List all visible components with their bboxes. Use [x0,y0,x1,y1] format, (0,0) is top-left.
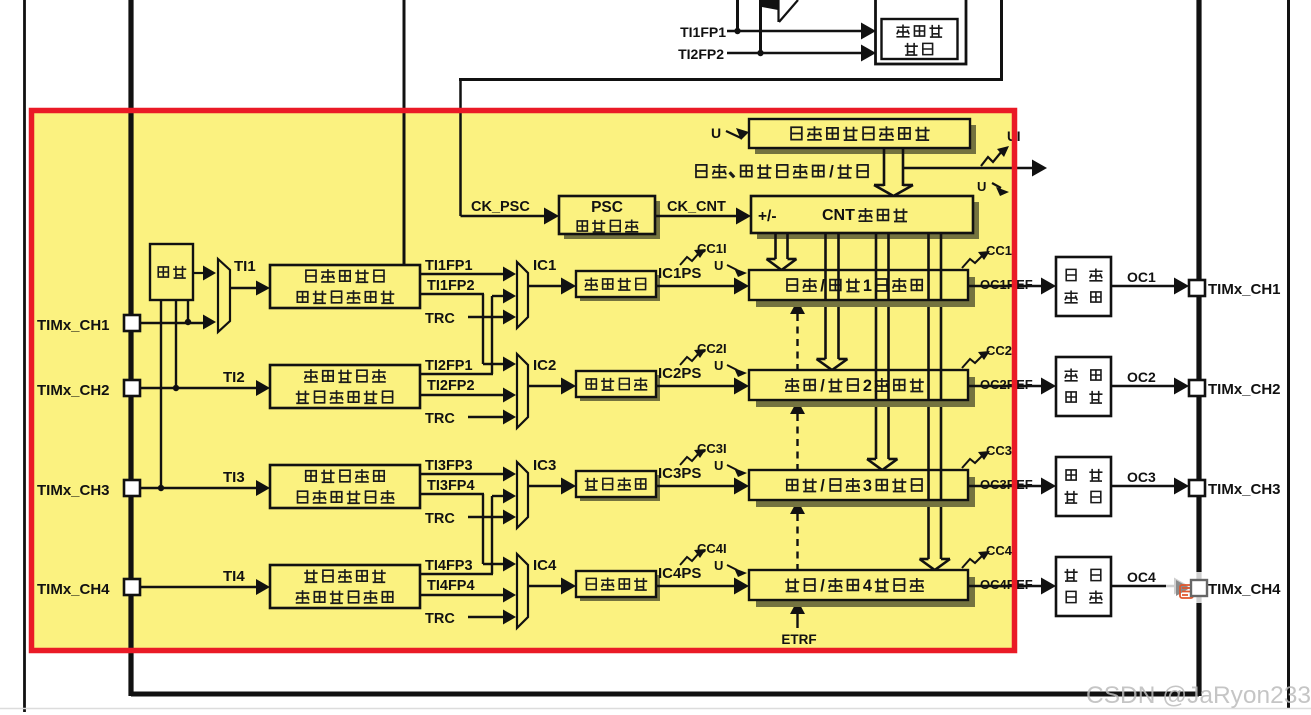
svg-text:U: U [714,458,723,473]
svg-text:IC4PS: IC4PS [658,565,701,582]
svg-text:1: 1 [863,277,872,295]
svg-text:/: / [820,577,825,595]
svg-text:OC1: OC1 [1127,269,1156,285]
svg-text:IC3PS: IC3PS [658,465,701,482]
svg-text:TI4FP4: TI4FP4 [427,578,475,594]
svg-text:+/-: +/- [758,208,777,225]
svg-text:/: / [820,377,825,395]
svg-text:TI4: TI4 [223,568,245,585]
svg-text:U: U [714,558,723,573]
svg-text:TI4FP3: TI4FP3 [425,558,473,574]
svg-text:U: U [977,179,986,194]
svg-text:TRC: TRC [425,511,455,527]
svg-text:U: U [714,358,723,373]
svg-text:TI3FP3: TI3FP3 [425,458,473,474]
svg-text:TI2FP1: TI2FP1 [425,358,473,374]
svg-text:TIMx_CH3: TIMx_CH3 [37,482,110,499]
svg-text:CC1I: CC1I [986,243,1016,258]
svg-text:OC3REF: OC3REF [980,477,1033,492]
svg-text:TI2FP2: TI2FP2 [678,46,724,62]
svg-text:TI2: TI2 [223,369,245,386]
svg-text:OC1REF: OC1REF [980,277,1033,292]
svg-text:CSDN @JaRyon233: CSDN @JaRyon233 [1086,682,1311,709]
svg-text:TI1: TI1 [234,258,256,275]
svg-text:IC1: IC1 [533,257,556,274]
svg-text:CK_PSC: CK_PSC [471,199,530,215]
svg-text:TIMx_CH1: TIMx_CH1 [37,317,110,334]
svg-text:OC2: OC2 [1127,369,1156,385]
svg-text:TIMx_CH2: TIMx_CH2 [37,382,110,399]
svg-text:U: U [711,125,721,141]
svg-text:TIMx_CH2: TIMx_CH2 [1208,381,1281,398]
svg-text:CC2I: CC2I [986,343,1016,358]
svg-text:3: 3 [863,477,872,495]
svg-text:PSC: PSC [591,199,623,216]
svg-text:/: / [829,162,834,181]
svg-text:/: / [820,477,825,495]
svg-text:TIMx_CH1: TIMx_CH1 [1208,281,1281,298]
svg-text:OC3: OC3 [1127,469,1156,485]
svg-text:TI1FP1: TI1FP1 [425,258,473,274]
svg-text:OC2REF: OC2REF [980,377,1033,392]
svg-text:IC1PS: IC1PS [658,265,701,282]
svg-text:IC2: IC2 [533,357,556,374]
svg-text:CC3I: CC3I [986,443,1016,458]
svg-text:OC4REF: OC4REF [980,577,1033,592]
svg-text:TIMx_CH4: TIMx_CH4 [37,581,110,598]
svg-text:4: 4 [863,577,872,595]
svg-text:IC4: IC4 [533,557,557,574]
svg-text:TRC: TRC [425,311,455,327]
svg-text:TRC: TRC [425,611,455,627]
svg-text:CK_CNT: CK_CNT [667,199,726,215]
svg-text:U: U [714,258,723,273]
svg-text:CNT: CNT [822,207,855,224]
svg-text:IC3: IC3 [533,457,556,474]
svg-text:TIMx_CH4: TIMx_CH4 [1208,581,1281,598]
svg-text:TI2FP2: TI2FP2 [427,378,475,394]
svg-text:TI1FP2: TI1FP2 [427,278,475,294]
svg-text:CC4I: CC4I [986,543,1016,558]
svg-text:OC4: OC4 [1127,569,1156,585]
svg-text:ETRF: ETRF [781,632,816,647]
svg-text:2: 2 [863,377,872,395]
svg-text:TI3: TI3 [223,469,245,486]
svg-text:TRC: TRC [425,411,455,427]
svg-text:TI3FP4: TI3FP4 [427,478,475,494]
svg-text:TI1FP1: TI1FP1 [680,24,726,40]
svg-text:IC2PS: IC2PS [658,365,701,382]
svg-text:TIMx_CH3: TIMx_CH3 [1208,481,1281,498]
